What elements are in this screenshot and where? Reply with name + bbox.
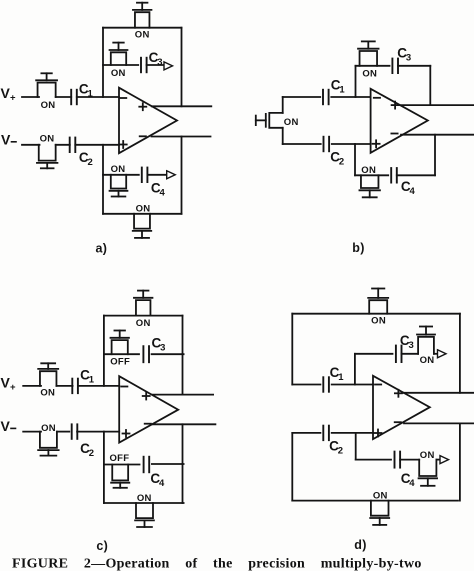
wire: top output (b): [400, 104, 474, 106]
wire: right feedback rail upper segment (d): [459, 314, 461, 393]
svg-text:d): d): [354, 538, 366, 552]
op-amp input plus sign (a): [120, 141, 127, 148]
svg-text:ON: ON: [137, 493, 152, 504]
transistor top reset switch ON (a): [133, 3, 152, 41]
arrow: C3 output tap (a): [164, 62, 173, 70]
svg-text:a): a): [95, 242, 107, 256]
svg-text:ON: ON: [361, 165, 376, 176]
wire: C3 to arrow (a): [147, 64, 164, 66]
label b): [352, 241, 364, 255]
wire: C3 branch (d): [355, 353, 393, 355]
wire: C4 branch (d): [356, 459, 391, 461]
svg-text:4: 4: [410, 186, 416, 197]
wire: C4 branch (b): [355, 174, 388, 176]
label d): [354, 538, 366, 552]
capacitor C3 (d): [396, 333, 414, 362]
wire: V- input lead (a): [22, 144, 40, 146]
svg-text:1: 1: [339, 85, 345, 96]
wire: bottom feedback rail (d): [292, 500, 458, 502]
wire: switch to C2 (c): [57, 431, 69, 433]
label c): [96, 539, 108, 553]
wire: bottom output (a): [152, 136, 211, 138]
transistor C3-branch switch ON (d): [402, 327, 436, 366]
capacitor C1 (c): [72, 367, 94, 393]
wire: bottom input line (b): [283, 143, 371, 145]
transistor C3-branch switch ON (b): [358, 41, 379, 79]
op-amp output plus sign (a): [139, 103, 146, 110]
wire: C3 branch (b): [356, 65, 390, 67]
capacitor C1 (b): [323, 78, 345, 105]
transistor C4-branch switch ON (a): [110, 164, 128, 196]
wire: left feedback rail lower segment (d): [291, 433, 293, 501]
svg-text:2: 2: [338, 445, 344, 456]
svg-text:1: 1: [338, 372, 344, 383]
wire: bottom feedback rail (a): [103, 213, 182, 215]
op-amp output minus sign (a): [140, 135, 146, 137]
svg-text:ON: ON: [111, 164, 126, 175]
op-amp output minus sign (c): [145, 423, 151, 425]
wire: right feedback rail upper segment (c): [182, 316, 184, 395]
transistor top reset switch ON (c): [134, 291, 153, 329]
node V+ label (a): [1, 85, 17, 104]
wire: bottom output (d): [404, 422, 474, 424]
svg-text:+: +: [10, 382, 16, 393]
wire: top feedback rail (d): [292, 313, 460, 315]
wire: C4 to output rail (b): [397, 135, 435, 176]
wire: C1 to op-amp inverting input (c): [78, 385, 119, 387]
wire: top output (d): [403, 392, 474, 394]
svg-text:V: V: [1, 374, 11, 390]
wire: left feedback rail upper segment (a): [102, 28, 104, 97]
svg-text:ON: ON: [40, 387, 55, 398]
capacitor C2 (c): [72, 424, 95, 459]
capacitor C4 (b): [391, 168, 415, 197]
wire: top input line (d): [292, 384, 373, 386]
arrow: C3 output tap (d): [438, 350, 447, 358]
svg-text:ON: ON: [284, 117, 299, 128]
op-amp input minus sign (d): [375, 384, 381, 386]
svg-text:ON: ON: [420, 355, 435, 366]
svg-text:+: +: [10, 93, 16, 104]
node V- label (a): [1, 131, 16, 147]
wire: V+ input lead (a): [22, 96, 39, 98]
svg-text:ON: ON: [371, 315, 386, 326]
wire: C4 branch (a): [103, 174, 139, 176]
op-amp output plus sign (b): [392, 102, 399, 109]
wire: C4 branch riser (b): [354, 144, 356, 175]
svg-text:3: 3: [409, 340, 415, 351]
capacitor C3 (a): [141, 50, 163, 72]
capacitor C2 (a): [70, 138, 93, 168]
wire: C2 to op-amp non-inverting input (a): [75, 144, 119, 146]
svg-text:V: V: [1, 85, 11, 101]
svg-text:3: 3: [160, 343, 166, 354]
wire: C3 switch to arrow (d): [434, 353, 437, 355]
svg-text:ON: ON: [420, 450, 435, 461]
svg-text:OFF: OFF: [109, 453, 129, 464]
svg-text:3: 3: [406, 52, 412, 63]
arrow: C4 output tap (d): [440, 456, 449, 464]
svg-text:OFF: OFF: [110, 356, 130, 367]
op-amp A1 (a): [119, 88, 177, 154]
svg-text:ON: ON: [111, 68, 126, 79]
op-amp input minus sign (a): [120, 97, 126, 99]
wire: input short vertical lower (b): [282, 128, 284, 144]
wire: top output (c): [152, 394, 213, 396]
wire: C3 to output rail (b): [398, 66, 430, 105]
wire: bottom input line (d): [292, 432, 373, 434]
transistor top reset switch ON (d): [368, 289, 388, 327]
transistor V- input switch ON (a): [37, 134, 58, 169]
op-amp A1 (c): [119, 376, 178, 442]
svg-text:b): b): [352, 241, 364, 255]
op-amp input plus sign (d): [375, 430, 382, 437]
wire: switch to C2 (a): [56, 144, 70, 146]
svg-text:ON: ON: [41, 423, 56, 434]
op-amp A1 (b): [371, 89, 428, 153]
wire: bottom feedback rail (c): [104, 502, 184, 504]
svg-text:ON: ON: [136, 204, 151, 215]
wire: bottom output (b): [401, 134, 474, 136]
arrow: C4 output tap (a): [167, 171, 176, 179]
wire: switch to C1 (c): [56, 385, 72, 387]
wire: top output (a): [152, 105, 212, 107]
transistor bottom reset switch ON (a): [133, 204, 152, 238]
wire: C4 branch riser (d): [355, 433, 357, 460]
wire: right feedback rail lower segment (c): [182, 424, 184, 503]
svg-text:V: V: [1, 131, 11, 147]
node V+ label (c): [1, 374, 17, 393]
svg-text:4: 4: [160, 188, 166, 199]
transistor bottom reset switch ON (d): [370, 491, 389, 525]
wire: top feedback rail (c): [104, 315, 183, 317]
wire: left feedback rail upper segment (c): [103, 316, 105, 386]
wire: right feedback rail upper segment (a): [181, 28, 183, 107]
transistor V+ input switch ON (a): [36, 73, 57, 111]
svg-text:2: 2: [339, 156, 345, 167]
wire: C4 to arrow (a): [147, 174, 166, 176]
svg-text:2: 2: [89, 448, 95, 459]
op-amp A1 (d): [373, 376, 430, 439]
wire: left feedback rail lower segment (c): [103, 432, 105, 503]
op-amp output plus sign (d): [395, 390, 402, 397]
svg-text:4: 4: [409, 478, 415, 489]
svg-text:ON: ON: [362, 68, 377, 79]
svg-text:ON: ON: [135, 30, 150, 41]
svg-text:V: V: [1, 418, 11, 434]
svg-text:ON: ON: [136, 318, 151, 329]
transistor C4-branch switch ON (d): [400, 450, 437, 486]
svg-text:ON: ON: [373, 491, 388, 502]
wire: C1 to op-amp inverting input (a): [77, 96, 119, 98]
wire: C2 to op-amp non-inverting input (c): [77, 431, 119, 433]
capacitor C2 (d): [323, 426, 343, 457]
op-amp input plus sign (c): [123, 430, 130, 437]
transistor V- input switch ON (c): [38, 423, 59, 456]
capacitor C1 (d): [323, 365, 344, 392]
wire: C4 branch (c): [104, 463, 184, 466]
wire: left feedback rail upper segment (d): [291, 314, 293, 385]
wire: C3 branch riser (b): [355, 66, 357, 97]
wire: top feedback rail (a): [103, 27, 182, 29]
capacitor C3 (c): [143, 336, 165, 363]
op-amp output plus sign (c): [143, 393, 150, 400]
wire: switch to C1 (a): [56, 96, 71, 98]
svg-text:1: 1: [89, 374, 95, 385]
wire: V- input lead (c): [23, 431, 41, 433]
transistor C3-branch switch OFF (c): [110, 331, 130, 368]
svg-text:4: 4: [159, 478, 165, 489]
op-amp input plus sign (b): [373, 140, 380, 147]
wire: C4 switch to arrow (d): [436, 459, 439, 461]
transistor C4-branch switch OFF (c): [109, 453, 129, 488]
node V- label (c): [1, 418, 16, 434]
op-amp output minus sign (b): [391, 133, 397, 135]
capacitor C4 (d): [395, 452, 416, 489]
wire: input short vertical upper (b): [282, 97, 284, 113]
capacitor C2 (b): [324, 137, 345, 168]
transistor C3-branch switch ON (a): [110, 43, 128, 79]
wire: right feedback rail lower segment (d): [459, 423, 461, 500]
wire: bottom output (c): [152, 423, 215, 425]
wire: C3 branch (a): [103, 64, 138, 66]
capacitor C1 (a): [71, 81, 93, 104]
capacitor C4 (c): [144, 457, 165, 489]
svg-text:ON: ON: [40, 134, 55, 145]
svg-text:FIGURE 2—Operation of the prec: FIGURE 2—Operation of the precision mult…: [12, 557, 422, 572]
op-amp input minus sign (b): [374, 97, 380, 99]
wire: C3 branch riser (d): [354, 354, 356, 385]
transistor C4-branch switch ON (b): [359, 165, 380, 197]
capacitor C3 (b): [392, 45, 411, 73]
svg-text:ON: ON: [41, 100, 56, 111]
wire: C3 branch (c): [104, 353, 184, 355]
transistor V+ input switch ON (c): [38, 363, 58, 398]
capacitor C4 (a): [142, 168, 166, 199]
svg-text:3: 3: [157, 57, 163, 68]
transistor input shorting switch ON (b): [256, 113, 299, 128]
wire: left feedback rail lower segment (a): [102, 145, 104, 214]
label a): [95, 242, 107, 256]
transistor bottom reset switch ON (c): [135, 493, 154, 527]
svg-text:c): c): [96, 539, 108, 553]
wire: V+ input lead (c): [23, 385, 41, 387]
svg-text:2: 2: [88, 157, 94, 168]
op-amp input minus sign (c): [121, 386, 127, 388]
wire: top input line (b): [283, 96, 371, 98]
op-amp output minus sign (d): [395, 421, 401, 423]
wire: right feedback rail lower segment (a): [181, 137, 183, 214]
